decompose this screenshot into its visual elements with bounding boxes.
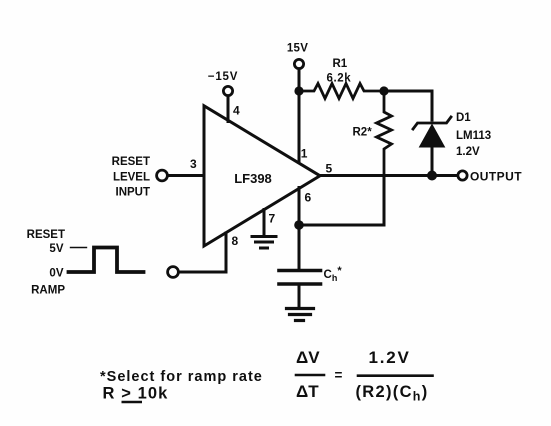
junction dot D1 / output line	[427, 171, 437, 181]
svg-text:15V: 15V	[287, 43, 308, 55]
resistor R2	[377, 91, 392, 176]
input terminal RESET LEVEL INPUT	[157, 170, 168, 181]
underline of >= sign	[122, 401, 143, 403]
footnote select for ramp rate	[100, 369, 263, 403]
svg-text:R2*: R2*	[353, 127, 373, 139]
ground symbol pin 7	[252, 237, 276, 249]
wire capacitor Ch to ground	[298, 286, 301, 306]
junction dot +15V / R1	[294, 86, 303, 95]
wire D1 to output node	[431, 147, 434, 176]
wire pin 6 down to feedback node	[298, 188, 301, 226]
power terminal +15V	[294, 59, 303, 68]
formula fraction bar 1.2V / (R2)(Ch)	[358, 374, 433, 377]
junction dot pin6 / feedback / Ch	[294, 220, 304, 230]
svg-text:R > 10k: R > 10k	[103, 385, 169, 403]
svg-text:(R2)(Ch): (R2)(Ch)	[356, 383, 429, 404]
svg-text:1: 1	[301, 147, 308, 161]
junction dot R1 / R2 / D1 branch	[379, 86, 388, 95]
wire pin 7 to ground	[263, 210, 266, 235]
svg-text:7: 7	[269, 212, 276, 226]
ground symbol under Ch	[287, 309, 314, 321]
svg-text:RESET: RESET	[112, 156, 150, 168]
svg-text:D1: D1	[456, 112, 471, 124]
svg-text:INPUT: INPUT	[116, 187, 151, 199]
svg-text:*Select for ramp rate: *Select for ramp rate	[100, 369, 263, 385]
resistor R1	[299, 84, 384, 99]
svg-text:LEVEL: LEVEL	[113, 171, 150, 183]
wire input terminal to pin 3	[168, 174, 204, 177]
svg-text:LM113: LM113	[456, 130, 491, 142]
svg-text:6: 6	[305, 191, 312, 205]
svg-text:−15V: −15V	[208, 71, 238, 83]
svg-text:RAMP: RAMP	[31, 285, 65, 297]
wire feedback to pin 6 node	[299, 224, 384, 227]
capacitor Ch wire from node	[298, 225, 301, 269]
svg-text:ΔV: ΔV	[296, 348, 320, 367]
reset waveform 5V dashed level	[71, 247, 87, 249]
output terminal	[458, 171, 467, 180]
svg-text:0V: 0V	[49, 268, 63, 280]
wire R1 node to diode D1	[384, 91, 432, 120]
svg-text:OUTPUT: OUTPUT	[470, 169, 522, 183]
svg-text:4: 4	[233, 104, 240, 118]
svg-text:1.2V: 1.2V	[369, 348, 411, 367]
svg-text:Ch*: Ch*	[324, 265, 343, 283]
svg-text:LF398: LF398	[234, 171, 272, 186]
svg-text:5: 5	[326, 162, 333, 176]
zener diode D1 cathode bar	[413, 117, 451, 129]
wire -15V to pin 4	[227, 96, 230, 122]
wire R2 bottom down to feedback corner	[383, 176, 386, 226]
svg-text:8: 8	[232, 234, 239, 248]
svg-text:5V: 5V	[49, 243, 63, 255]
svg-text:1.2V: 1.2V	[456, 146, 480, 158]
formula fraction bar dV/dT	[296, 374, 324, 377]
svg-text:RESET: RESET	[27, 229, 65, 241]
formula dV/dT = 1.2V/(R2)(Ch)	[296, 348, 429, 404]
svg-text:=: =	[335, 368, 343, 383]
wire pin 8 to ramp terminal	[179, 233, 226, 272]
svg-text:3: 3	[190, 157, 197, 171]
wire op-amp output pin 5	[320, 174, 458, 177]
ramp input terminal	[168, 267, 179, 278]
reset waveform pulse	[69, 248, 144, 273]
wire +15V down to op-amp pin 1	[298, 69, 301, 162]
svg-text:6.2k: 6.2k	[327, 73, 352, 85]
svg-text:ΔT: ΔT	[296, 382, 319, 401]
zener diode D1 anode triangle	[420, 125, 445, 148]
op-amp U1 LF398 body	[204, 106, 320, 246]
power terminal -15V	[223, 86, 232, 95]
capacitor Ch plates	[279, 271, 321, 285]
svg-text:R1: R1	[333, 58, 348, 70]
